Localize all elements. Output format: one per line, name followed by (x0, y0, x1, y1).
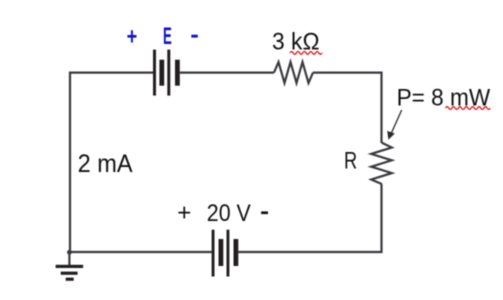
ground bar 1 (56, 265, 84, 268)
node junction at ground (67, 250, 72, 255)
svg-text:20 V: 20 V (207, 200, 251, 227)
battery E plate long left (153, 50, 156, 96)
spellcheck squiggle under kOhm (290, 52, 322, 55)
battery E plate short right (175, 60, 180, 86)
svg-text:P= 8 mW: P= 8 mW (397, 84, 491, 111)
battery E plate short inner-left (159, 60, 164, 86)
wire bottom-right segment (238, 251, 381, 252)
svg-text:R: R (344, 148, 357, 175)
svg-text:+: + (177, 200, 191, 227)
battery 20V plate long left (212, 230, 215, 277)
ground bar 2 (61, 272, 78, 275)
label - of E (191, 35, 198, 38)
svg-text:E: E (163, 23, 172, 50)
resistor R zigzag (371, 143, 392, 184)
arrow head to R (387, 131, 395, 140)
battery 20V plate short inner-left (219, 239, 224, 266)
svg-text:3 kΩ: 3 kΩ (272, 28, 320, 55)
spellcheck squiggle under mW (446, 107, 491, 110)
ground stem (68, 252, 70, 265)
resistor 3k zigzag (274, 62, 313, 83)
arrow line to R (391, 110, 402, 135)
wire top-right segment with corner (313, 73, 382, 143)
battery 20V plate short right (234, 239, 239, 266)
ground bar 3 (66, 278, 74, 281)
wire top-middle segment (180, 71, 274, 73)
wire top-left segment (70, 73, 153, 252)
wire bottom-left segment (69, 251, 212, 253)
battery 20V plate long right (227, 230, 230, 277)
label - of 20V (261, 211, 268, 214)
svg-text:+: + (127, 23, 138, 50)
wire right-lower segment (380, 184, 382, 252)
battery E plate long right (167, 50, 170, 96)
svg-text:2 mA: 2 mA (78, 150, 133, 178)
